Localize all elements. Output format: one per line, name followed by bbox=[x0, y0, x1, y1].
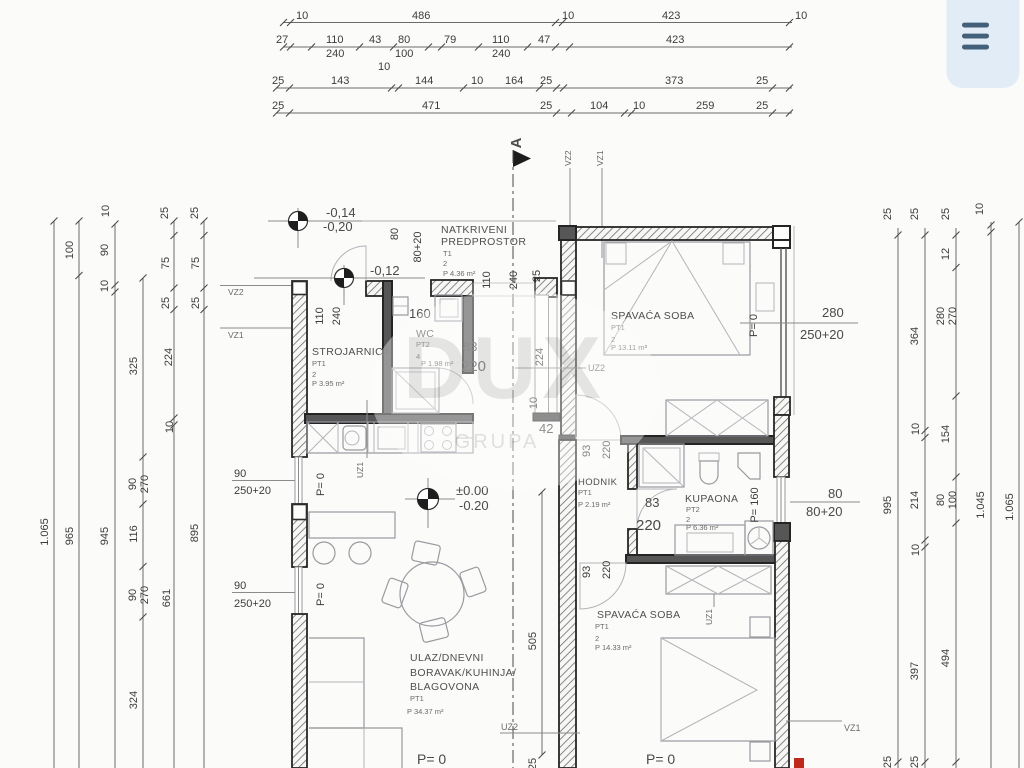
node VZ2 left label bbox=[220, 286, 292, 298]
entry door panel bbox=[535, 295, 557, 413]
right outer wall lower bbox=[775, 541, 789, 768]
bathroom 80 dim bbox=[790, 486, 860, 519]
svg-text:P 34.37 m²: P 34.37 m² bbox=[407, 707, 444, 716]
svg-text:423: 423 bbox=[666, 34, 684, 46]
svg-text:270: 270 bbox=[139, 586, 151, 604]
svg-text:25: 25 bbox=[272, 75, 284, 87]
uz1 kitchen leader bbox=[355, 400, 367, 478]
svg-text:PT1: PT1 bbox=[410, 694, 424, 703]
svg-text:224: 224 bbox=[163, 348, 175, 366]
window annotation 90/250+20 lower bbox=[232, 580, 296, 610]
dimension column left C (10,90,10,945) bbox=[99, 205, 119, 768]
svg-text:104: 104 bbox=[590, 100, 608, 112]
dimension chain row 2 bbox=[276, 34, 793, 73]
svg-text:79: 79 bbox=[444, 34, 456, 46]
svg-text:KUPAONA: KUPAONA bbox=[685, 493, 738, 505]
bedroom1 bottom-right corner block bbox=[774, 397, 790, 415]
svg-text:25: 25 bbox=[909, 756, 921, 768]
bedside table b1 window bbox=[756, 283, 774, 311]
svg-text:75: 75 bbox=[160, 257, 172, 269]
svg-text:25: 25 bbox=[756, 100, 768, 112]
svg-text:110: 110 bbox=[492, 34, 510, 46]
svg-text:80: 80 bbox=[935, 494, 947, 506]
vz wall (entry to bedroom1) bbox=[559, 240, 576, 443]
svg-text:240: 240 bbox=[492, 48, 510, 60]
svg-text:25: 25 bbox=[909, 208, 921, 220]
svg-text:UZ2: UZ2 bbox=[501, 722, 518, 732]
svg-text:220: 220 bbox=[601, 561, 613, 579]
dimension column right K (1.065) bbox=[1004, 219, 1023, 768]
stool 1 bbox=[313, 542, 335, 564]
bathroom shower bbox=[639, 444, 684, 487]
svg-text:UZ1: UZ1 bbox=[704, 609, 714, 625]
svg-text:90: 90 bbox=[127, 478, 139, 490]
svg-text:373: 373 bbox=[665, 75, 683, 87]
svg-text:P 6.36 m²: P 6.36 m² bbox=[686, 523, 719, 532]
svg-text:2: 2 bbox=[595, 634, 599, 643]
svg-text:505: 505 bbox=[527, 632, 539, 650]
svg-text:P= 0: P= 0 bbox=[417, 751, 446, 767]
svg-text:220: 220 bbox=[636, 517, 661, 534]
right outer wall upper (bathroom) bbox=[774, 415, 789, 477]
svg-text:-0,20: -0,20 bbox=[323, 219, 353, 234]
svg-text:P= 0: P= 0 bbox=[315, 583, 327, 606]
bedroom1 label bbox=[611, 309, 695, 352]
svg-text:12: 12 bbox=[940, 248, 952, 260]
bedroom1 280 dim bbox=[740, 305, 858, 342]
svg-text:P= 0: P= 0 bbox=[748, 314, 760, 337]
svg-text:25: 25 bbox=[540, 100, 552, 112]
bed 1 bbox=[604, 241, 750, 355]
svg-text:P 4.36 m²: P 4.36 m² bbox=[443, 269, 476, 278]
kitchen block bottom wall bbox=[305, 414, 473, 423]
svg-text:895: 895 bbox=[189, 524, 201, 542]
svg-text:25: 25 bbox=[272, 100, 284, 112]
dimension column right I (12,280/270,154,80/100,494) bbox=[935, 208, 960, 768]
bedroom1 top wall bbox=[575, 227, 774, 240]
svg-text:10: 10 bbox=[974, 203, 986, 215]
svg-text:27: 27 bbox=[276, 34, 288, 46]
bathroom left wall upper bbox=[628, 444, 637, 489]
svg-text:P 3.95 m²: P 3.95 m² bbox=[312, 379, 345, 388]
svg-text:80: 80 bbox=[398, 34, 410, 46]
svg-text:240: 240 bbox=[331, 307, 343, 325]
watermark bbox=[370, 290, 660, 490]
left outer wall mid bbox=[292, 504, 307, 567]
bedroom2 door arc bbox=[580, 563, 626, 609]
left outer wall upper bbox=[292, 281, 307, 457]
svg-text:VZ1: VZ1 bbox=[228, 330, 244, 340]
vz1 right leader bbox=[786, 721, 861, 733]
svg-text:25: 25 bbox=[160, 297, 172, 309]
svg-text:BLAGOVONA: BLAGOVONA bbox=[410, 681, 480, 693]
bedroom1 door opening + arc bbox=[576, 395, 621, 440]
bathroom vanity bbox=[675, 525, 745, 555]
node VZ2 top bbox=[563, 150, 573, 228]
strojarnica door arc bbox=[331, 246, 366, 281]
svg-text:250+20: 250+20 bbox=[234, 598, 271, 610]
svg-text:PT1: PT1 bbox=[578, 488, 592, 497]
svg-text:GRUPA: GRUPA bbox=[455, 431, 540, 453]
svg-text:100: 100 bbox=[395, 48, 413, 60]
facade line right of bedroom1 bbox=[793, 226, 795, 415]
svg-text:25: 25 bbox=[940, 208, 952, 220]
svg-text:10: 10 bbox=[633, 100, 645, 112]
svg-text:259: 259 bbox=[696, 100, 714, 112]
svg-text:25: 25 bbox=[882, 208, 894, 220]
dimension column right H (364,10,214,10,397) bbox=[909, 208, 929, 768]
strojarnica top wall bbox=[366, 281, 391, 296]
svg-text:25: 25 bbox=[159, 207, 171, 219]
dimension column left E (25,75,25,224,10,661) bbox=[159, 207, 178, 768]
svg-text:-0,12: -0,12 bbox=[370, 263, 400, 278]
svg-text:10: 10 bbox=[471, 75, 483, 87]
dimension column right G (995) bbox=[882, 208, 902, 768]
window annotation 90/250+20 upper bbox=[232, 468, 296, 497]
right outer wall corner block bbox=[774, 523, 790, 541]
svg-text:945: 945 bbox=[99, 527, 111, 545]
wc washbasin bbox=[435, 295, 462, 321]
svg-text:25: 25 bbox=[882, 756, 894, 768]
svg-text:P 14.33 m²: P 14.33 m² bbox=[595, 643, 632, 652]
divider wall strojarnica/wc bbox=[383, 281, 392, 415]
svg-text:PT1: PT1 bbox=[312, 359, 326, 368]
svg-text:PT2: PT2 bbox=[686, 505, 700, 514]
svg-text:214: 214 bbox=[909, 491, 921, 509]
svg-text:397: 397 bbox=[909, 662, 921, 680]
bed 2 bbox=[661, 638, 775, 741]
svg-text:SPAVAĆA SOBA: SPAVAĆA SOBA bbox=[597, 608, 681, 621]
svg-text:25: 25 bbox=[756, 75, 768, 87]
svg-text:10: 10 bbox=[562, 10, 574, 22]
wc door arc bbox=[437, 368, 473, 404]
svg-text:280: 280 bbox=[935, 307, 947, 325]
bedside table b2 top bbox=[750, 617, 770, 637]
dimension chain row 4 bbox=[272, 100, 793, 117]
chair right bbox=[459, 566, 487, 597]
svg-text:661: 661 bbox=[161, 589, 173, 607]
svg-text:2: 2 bbox=[443, 259, 447, 268]
svg-text:494: 494 bbox=[940, 649, 952, 667]
svg-text:P= 160: P= 160 bbox=[749, 487, 761, 522]
svg-text:10: 10 bbox=[164, 421, 176, 433]
kitchen counter bbox=[307, 422, 473, 453]
svg-text:HODNIK: HODNIK bbox=[578, 477, 618, 488]
svg-text:VZ1: VZ1 bbox=[595, 150, 605, 166]
svg-text:110: 110 bbox=[314, 307, 326, 325]
chair bottom bbox=[419, 617, 449, 643]
wardrobe bedroom1 bbox=[666, 400, 768, 436]
wc label bbox=[409, 306, 486, 375]
svg-text:90: 90 bbox=[99, 244, 111, 256]
uz2 bottom leader bbox=[500, 722, 580, 733]
node VZ1 top bbox=[595, 150, 605, 258]
svg-text:995: 995 bbox=[882, 496, 894, 514]
bathroom door arc bbox=[637, 489, 677, 529]
svg-text:100: 100 bbox=[64, 241, 76, 259]
bedside table b2 bottom bbox=[750, 742, 770, 761]
entry dims 80 80+20 bbox=[389, 228, 553, 436]
svg-text:10: 10 bbox=[910, 544, 922, 556]
entry sill block bbox=[533, 413, 560, 421]
svg-text:VZ2: VZ2 bbox=[563, 150, 573, 166]
svg-text:110: 110 bbox=[326, 34, 344, 46]
svg-text:25: 25 bbox=[540, 75, 552, 87]
svg-text:25: 25 bbox=[531, 270, 543, 282]
svg-text:25: 25 bbox=[527, 758, 539, 768]
bedroom2 label bbox=[595, 594, 714, 652]
svg-text:PT1: PT1 bbox=[595, 622, 609, 631]
living room label bbox=[407, 652, 516, 716]
svg-text:-0.20: -0.20 bbox=[459, 498, 489, 513]
svg-text:1.065: 1.065 bbox=[39, 518, 51, 546]
svg-text:43: 43 bbox=[369, 34, 381, 46]
kitchen sink bbox=[343, 426, 366, 450]
node VZ1 left label bbox=[220, 328, 292, 340]
svg-text:90: 90 bbox=[234, 580, 246, 592]
svg-text:423: 423 bbox=[662, 10, 680, 22]
svg-text:90: 90 bbox=[234, 468, 246, 480]
red logo mark bbox=[794, 758, 804, 768]
svg-text:250+20: 250+20 bbox=[800, 327, 844, 342]
svg-text:1.045: 1.045 bbox=[975, 491, 987, 519]
svg-text:250+20: 250+20 bbox=[234, 485, 271, 497]
section line A-A bbox=[508, 137, 531, 768]
window W1 left bbox=[295, 457, 302, 504]
svg-text:80+20: 80+20 bbox=[806, 504, 843, 519]
dimension column left F (25,75,25,895) bbox=[189, 207, 208, 768]
porch parapet bbox=[473, 283, 535, 296]
svg-text:47: 47 bbox=[538, 34, 550, 46]
bathroom left wall lower bbox=[628, 529, 637, 555]
svg-text:ULAZ/DNEVNI: ULAZ/DNEVNI bbox=[410, 652, 484, 664]
svg-text:240: 240 bbox=[508, 271, 520, 289]
svg-text:280: 280 bbox=[822, 305, 844, 320]
dimension column left B (100,965) bbox=[64, 218, 83, 768]
bedroom1 right window bbox=[781, 248, 786, 397]
svg-text:75: 75 bbox=[190, 257, 202, 269]
svg-text:T1: T1 bbox=[443, 249, 452, 258]
svg-text:83: 83 bbox=[645, 495, 659, 510]
natkriveni predprostor label bbox=[441, 224, 526, 278]
svg-text:270: 270 bbox=[947, 307, 959, 325]
svg-text:PREDPROSTOR: PREDPROSTOR bbox=[441, 236, 526, 248]
svg-text:364: 364 bbox=[909, 327, 921, 345]
svg-text:1.065: 1.065 bbox=[1004, 493, 1016, 521]
bedroom1 bottom wall / bathroom top wall bbox=[621, 436, 777, 444]
svg-text:SPAVAĆA SOBA: SPAVAĆA SOBA bbox=[611, 309, 695, 322]
svg-text:VZ2: VZ2 bbox=[228, 287, 244, 297]
left outer wall lower bbox=[292, 614, 307, 768]
svg-text:-0,14: -0,14 bbox=[326, 205, 356, 220]
dimension column left A (1.065) bbox=[39, 218, 58, 768]
bathroom corner sink bbox=[738, 453, 760, 479]
washing machine bbox=[745, 521, 773, 555]
porch edge line bbox=[292, 220, 556, 222]
kitchen island bbox=[309, 512, 395, 538]
svg-text:110: 110 bbox=[481, 271, 493, 289]
elevation marker -0,12 bbox=[254, 263, 425, 305]
svg-text:P= 0: P= 0 bbox=[646, 751, 675, 767]
svg-text:10: 10 bbox=[100, 205, 112, 217]
wardrobe bedroom2 bbox=[666, 566, 771, 594]
toilet bbox=[699, 453, 719, 484]
svg-text:164: 164 bbox=[505, 75, 523, 87]
hodnik 93/220 upper bbox=[581, 441, 613, 459]
svg-text:93: 93 bbox=[581, 566, 593, 578]
svg-text:116: 116 bbox=[128, 525, 140, 543]
svg-text:10: 10 bbox=[795, 10, 807, 22]
svg-text:10: 10 bbox=[910, 423, 922, 435]
dining table bbox=[400, 562, 464, 626]
svg-text:25: 25 bbox=[190, 297, 202, 309]
wc top wall bbox=[431, 280, 473, 296]
svg-text:10: 10 bbox=[378, 61, 390, 73]
svg-text:25: 25 bbox=[189, 207, 201, 219]
svg-text:965: 965 bbox=[64, 527, 76, 545]
svg-text:80: 80 bbox=[828, 486, 842, 501]
svg-text:DUX: DUX bbox=[403, 318, 607, 417]
svg-text:144: 144 bbox=[415, 75, 433, 87]
bathroom bottom wall bbox=[626, 555, 777, 563]
bedroom2 left wall bbox=[559, 440, 576, 768]
kupaonica label bbox=[685, 487, 761, 532]
svg-text:80: 80 bbox=[389, 228, 401, 240]
wc right wall bbox=[463, 296, 473, 373]
505 dimension bbox=[527, 489, 546, 768]
svg-text:143: 143 bbox=[331, 75, 349, 87]
svg-text:486: 486 bbox=[412, 10, 430, 22]
bedroom1 top-right corner block bbox=[773, 226, 790, 248]
bathroom window right bbox=[777, 477, 785, 523]
svg-text:10: 10 bbox=[99, 280, 111, 292]
svg-text:154: 154 bbox=[940, 425, 952, 443]
hodnik 93/220 lower bbox=[581, 561, 613, 579]
window W2 left bbox=[295, 567, 302, 614]
bedroom1 top-left corner block bbox=[559, 226, 576, 240]
chair top bbox=[411, 541, 441, 566]
svg-text:471: 471 bbox=[422, 100, 440, 112]
svg-text:P 2.19 m²: P 2.19 m² bbox=[578, 500, 611, 509]
stool 2 bbox=[349, 542, 371, 564]
svg-text:NATKRIVENI: NATKRIVENI bbox=[441, 224, 507, 236]
lobby sink bbox=[393, 297, 408, 315]
dimension chain row 1 top bbox=[280, 10, 807, 26]
svg-text:2: 2 bbox=[312, 370, 316, 379]
svg-text:240: 240 bbox=[326, 48, 344, 60]
elevation marker +0,00/-0,20 bbox=[405, 478, 489, 528]
menu pill button bbox=[947, 0, 1020, 88]
svg-text:UZ1: UZ1 bbox=[355, 462, 365, 478]
svg-text:A: A bbox=[508, 137, 525, 148]
svg-text:80+20: 80+20 bbox=[412, 232, 424, 263]
svg-text:325: 325 bbox=[128, 357, 140, 375]
uz2 entry leader bbox=[515, 363, 605, 373]
elevation marker -0,14/-0,20 bbox=[268, 205, 362, 248]
hodnik label bbox=[578, 477, 661, 534]
svg-text:VZ1: VZ1 bbox=[844, 723, 861, 733]
chair left bbox=[381, 577, 409, 608]
svg-text:270: 270 bbox=[139, 475, 151, 493]
entry side wall block bbox=[535, 278, 557, 297]
dimension chain row 3 bbox=[272, 75, 793, 92]
stove bbox=[421, 424, 456, 452]
svg-text:10: 10 bbox=[296, 10, 308, 22]
strojarnica label bbox=[312, 307, 391, 388]
wc shower bbox=[392, 368, 439, 413]
svg-text:324: 324 bbox=[128, 691, 140, 709]
svg-text:100: 100 bbox=[947, 491, 959, 509]
kitchen cabinet front bbox=[378, 427, 405, 449]
dimension column left D (325,90/270,116,90/270,324) bbox=[127, 275, 151, 768]
svg-text:BORAVAK/KUHINJA/: BORAVAK/KUHINJA/ bbox=[410, 667, 516, 679]
svg-text:P= 0: P= 0 bbox=[315, 473, 327, 496]
dimension column right J (10,1.045) bbox=[974, 203, 995, 768]
sofa bbox=[309, 638, 402, 768]
svg-text:90: 90 bbox=[127, 589, 139, 601]
